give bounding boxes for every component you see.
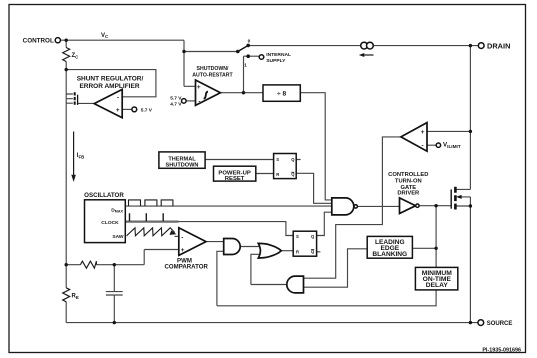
svg-text:DELAY: DELAY: [426, 282, 449, 289]
svg-text:S: S: [296, 234, 299, 239]
svg-text:-: -: [422, 143, 424, 150]
svg-text:PI-1935-091696: PI-1935-091696: [482, 347, 521, 353]
svg-text:÷ 8: ÷ 8: [277, 90, 286, 97]
svg-text:COMPARATOR: COMPARATOR: [165, 264, 209, 271]
svg-text:VC: VC: [101, 33, 109, 39]
svg-text:RESET: RESET: [225, 176, 245, 182]
svg-text:ZC: ZC: [72, 53, 80, 59]
svg-text:5.7 V: 5.7 V: [170, 95, 182, 101]
svg-text:OSCILLATOR: OSCILLATOR: [84, 192, 124, 199]
svg-text:5.7 V: 5.7 V: [141, 108, 153, 114]
svg-text:+: +: [116, 107, 120, 114]
svg-text:R: R: [296, 249, 299, 254]
svg-text:S: S: [276, 157, 279, 162]
svg-text:-: -: [117, 94, 119, 101]
svg-text:SOURCE: SOURCE: [487, 321, 513, 327]
svg-text:THERMAL: THERMAL: [168, 156, 196, 162]
svg-text:CONTROL: CONTROL: [23, 37, 54, 44]
svg-text:-: -: [181, 235, 183, 242]
svg-text:+: +: [197, 84, 201, 91]
svg-text:CLOCK: CLOCK: [101, 220, 119, 226]
svg-text:-: -: [198, 99, 200, 106]
svg-text:ERROR AMPLIFIER: ERROR AMPLIFIER: [79, 83, 139, 90]
svg-text:SHUTDOWN/: SHUTDOWN/: [197, 66, 230, 72]
svg-text:RE: RE: [72, 293, 79, 299]
svg-text:AUTO-RESTART: AUTO-RESTART: [192, 72, 233, 78]
svg-text:IFB: IFB: [77, 153, 85, 159]
svg-text:SAW: SAW: [112, 234, 124, 240]
svg-text:CONTROLLED: CONTROLLED: [388, 172, 428, 178]
svg-text:SUPPLY: SUPPLY: [266, 58, 286, 64]
svg-text:+: +: [421, 129, 425, 136]
svg-text:INTERNAL: INTERNAL: [266, 52, 291, 58]
svg-text:+: +: [181, 247, 185, 254]
svg-text:DRIVER: DRIVER: [397, 191, 420, 197]
svg-text:SHUTDOWN: SHUTDOWN: [166, 163, 199, 169]
svg-text:0: 0: [248, 39, 251, 45]
svg-text:SHUNT REGULATOR/: SHUNT REGULATOR/: [77, 75, 144, 82]
svg-text:DRAIN: DRAIN: [487, 41, 510, 50]
svg-text:R: R: [276, 172, 279, 177]
svg-text:BLANKING: BLANKING: [372, 251, 407, 258]
svg-text:4.7 V: 4.7 V: [170, 101, 182, 107]
svg-text:TURN-ON: TURN-ON: [395, 179, 422, 185]
svg-text:1: 1: [244, 63, 247, 69]
